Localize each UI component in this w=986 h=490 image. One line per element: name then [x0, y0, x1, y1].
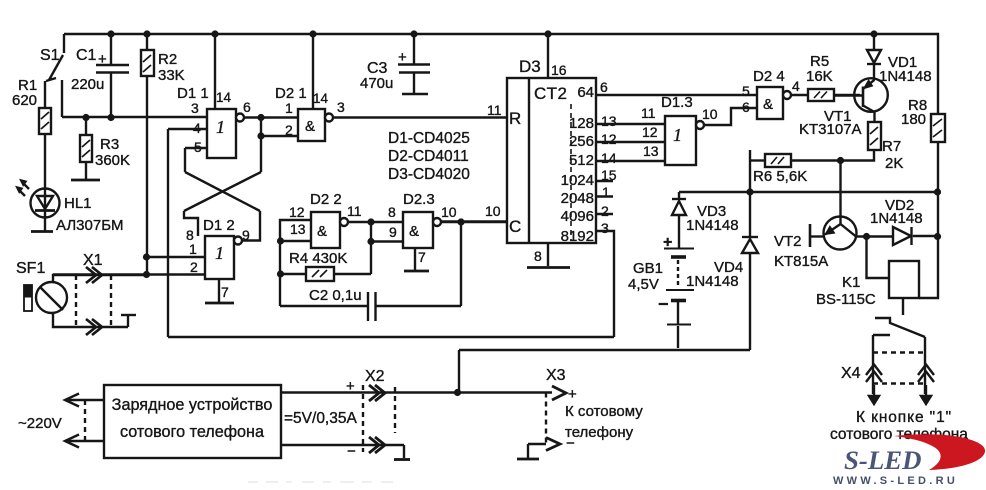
- svg-text:1: 1: [215, 243, 224, 263]
- svg-text:+: +: [663, 234, 672, 251]
- svg-text:+: +: [568, 386, 577, 403]
- svg-text:14: 14: [216, 90, 232, 105]
- svg-text:2: 2: [190, 259, 198, 275]
- svg-text:D2.3: D2.3: [403, 191, 435, 208]
- svg-text:16K: 16K: [806, 68, 833, 85]
- svg-text:3: 3: [337, 99, 345, 115]
- svg-text:К сотовому: К сотовому: [565, 403, 643, 420]
- svg-text:+: +: [346, 378, 355, 395]
- svg-text:C: C: [509, 217, 521, 236]
- svg-text:180: 180: [901, 111, 926, 128]
- svg-text:X2: X2: [365, 368, 385, 385]
- svg-text:АЛ307БМ: АЛ307БМ: [56, 217, 124, 234]
- svg-text:11: 11: [487, 102, 502, 118]
- svg-text:3: 3: [191, 100, 199, 116]
- svg-text:R: R: [509, 109, 521, 128]
- svg-text:Зарядное устройство: Зарядное устройство: [112, 396, 273, 414]
- svg-text:C2 0,1u: C2 0,1u: [309, 287, 362, 304]
- svg-text:33K: 33K: [158, 67, 185, 84]
- svg-text:1N4148: 1N4148: [879, 68, 932, 85]
- svg-text:4096: 4096: [561, 208, 594, 225]
- svg-text:7: 7: [418, 249, 426, 265]
- svg-text:SF1: SF1: [16, 260, 45, 277]
- svg-text:14: 14: [601, 150, 617, 166]
- svg-text:4: 4: [792, 78, 800, 94]
- svg-text:256: 256: [569, 133, 594, 150]
- svg-text:R4 430K: R4 430K: [289, 250, 347, 267]
- svg-text:D1-CD4025: D1-CD4025: [388, 130, 470, 147]
- svg-text:3: 3: [601, 220, 609, 236]
- svg-text:S-LED: S-LED: [844, 445, 921, 475]
- svg-text:6: 6: [243, 99, 251, 115]
- svg-text:620: 620: [12, 92, 37, 109]
- svg-text:360K: 360K: [95, 152, 130, 169]
- svg-text:сотового телефона: сотового телефона: [120, 423, 264, 441]
- svg-text:15: 15: [601, 167, 617, 183]
- svg-text:&: &: [763, 96, 773, 113]
- svg-text:13: 13: [601, 113, 617, 129]
- svg-text:9: 9: [242, 227, 250, 243]
- svg-text:D1 2: D1 2: [203, 217, 235, 234]
- svg-text:D2 4: D2 4: [753, 68, 785, 85]
- svg-text:1N4148: 1N4148: [686, 273, 739, 290]
- svg-text:R3: R3: [100, 136, 119, 153]
- svg-text:&: &: [305, 118, 315, 135]
- svg-text:1: 1: [285, 100, 293, 116]
- svg-text:12: 12: [289, 204, 305, 220]
- svg-text:12: 12: [642, 124, 658, 140]
- svg-text:8: 8: [388, 204, 396, 220]
- svg-text:64: 64: [577, 84, 594, 101]
- svg-text:12: 12: [601, 131, 617, 147]
- svg-text:8192: 8192: [561, 228, 594, 245]
- svg-text:S1: S1: [40, 47, 60, 64]
- svg-text:4,5V: 4,5V: [628, 276, 659, 293]
- svg-text:11: 11: [347, 203, 362, 219]
- svg-text:X4: X4: [841, 365, 861, 382]
- svg-text:+: +: [398, 49, 407, 66]
- svg-text:телефону: телефону: [565, 424, 634, 441]
- svg-text:1: 1: [673, 125, 682, 145]
- svg-text:2: 2: [285, 122, 293, 138]
- svg-text:10: 10: [441, 204, 457, 220]
- svg-text:1N4148: 1N4148: [870, 210, 923, 227]
- svg-text:1024: 1024: [561, 172, 594, 189]
- svg-text:D3-CD4020: D3-CD4020: [388, 166, 470, 183]
- svg-text:5: 5: [742, 83, 750, 99]
- svg-text:470u: 470u: [360, 75, 393, 92]
- svg-text:10: 10: [702, 106, 718, 122]
- svg-text:WWW.S-LED.RU: WWW.S-LED.RU: [833, 475, 958, 487]
- svg-text:8: 8: [534, 248, 542, 264]
- svg-text:X3: X3: [546, 367, 566, 384]
- svg-text:К кнопке "1": К кнопке "1": [856, 409, 952, 426]
- svg-text:16: 16: [551, 62, 567, 78]
- svg-text:D2 2: D2 2: [310, 191, 342, 208]
- svg-text:5: 5: [194, 139, 202, 155]
- svg-text:2048: 2048: [561, 190, 594, 207]
- svg-text:R7: R7: [882, 138, 901, 155]
- svg-text:C1: C1: [76, 47, 97, 64]
- svg-text:13: 13: [643, 143, 659, 159]
- svg-text:11: 11: [641, 105, 656, 121]
- svg-text:R2: R2: [158, 51, 177, 68]
- svg-text:~220V: ~220V: [18, 415, 62, 432]
- svg-text:VT2: VT2: [774, 233, 802, 250]
- svg-text:4: 4: [193, 120, 201, 136]
- svg-text:K1: K1: [842, 274, 860, 291]
- svg-text:6: 6: [742, 99, 750, 115]
- svg-text:9: 9: [389, 224, 397, 240]
- svg-text:GB1: GB1: [633, 260, 663, 277]
- svg-text:KT815A: KT815A: [774, 253, 828, 270]
- svg-text:7: 7: [221, 284, 229, 300]
- svg-text:HL1: HL1: [64, 195, 92, 212]
- svg-text:13: 13: [290, 221, 306, 237]
- svg-text:1: 1: [602, 184, 610, 200]
- svg-text:10: 10: [485, 203, 501, 219]
- svg-text:6: 6: [600, 79, 608, 95]
- svg-text:KT3107A: KT3107A: [799, 121, 862, 138]
- svg-text:−: −: [658, 294, 669, 314]
- svg-text:D3: D3: [519, 57, 541, 76]
- svg-text:2: 2: [601, 203, 609, 219]
- svg-text:D1.3: D1.3: [661, 94, 693, 111]
- svg-text:14: 14: [313, 91, 329, 106]
- svg-text:1: 1: [189, 241, 197, 257]
- svg-text:BS-115C: BS-115C: [816, 291, 876, 308]
- svg-text:CT2: CT2: [534, 84, 567, 103]
- svg-text:X1: X1: [83, 252, 103, 269]
- svg-text:=5V/0,35A: =5V/0,35A: [284, 410, 357, 427]
- svg-text:128: 128: [569, 115, 594, 132]
- svg-text:512: 512: [569, 152, 594, 169]
- svg-text:−: −: [347, 443, 356, 460]
- svg-text:&: &: [409, 223, 419, 240]
- svg-text:2K: 2K: [885, 155, 903, 172]
- svg-text:R6 5,6K: R6 5,6K: [753, 168, 807, 185]
- svg-text:1: 1: [216, 117, 225, 137]
- svg-text:+: +: [98, 51, 107, 68]
- svg-text:D2-CD4011: D2-CD4011: [388, 148, 469, 165]
- svg-text:220u: 220u: [71, 76, 104, 93]
- svg-text:1N4148: 1N4148: [686, 217, 739, 234]
- svg-text:&: &: [317, 223, 327, 240]
